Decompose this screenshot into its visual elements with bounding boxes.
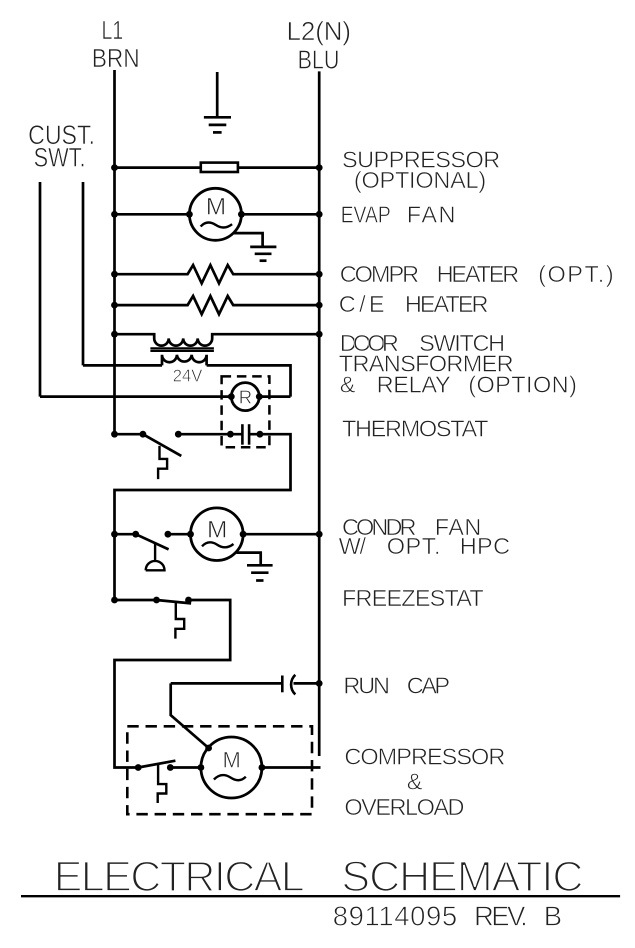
svg-text:B: B xyxy=(544,900,562,931)
svg-text:&: & xyxy=(340,372,356,398)
svg-text:W/: W/ xyxy=(339,533,367,559)
switch condr fan HPC blade xyxy=(136,534,169,549)
ground (condr fan) xyxy=(236,553,272,581)
relay coil R xyxy=(231,383,259,411)
motor CONDR FAN xyxy=(191,508,244,561)
svg-text:24V: 24V xyxy=(173,366,203,386)
wire run cap to L2 xyxy=(294,682,320,685)
node evap motor left xyxy=(186,211,193,218)
node L2/evap xyxy=(316,211,323,218)
thermostat sensing element xyxy=(158,446,167,479)
svg-text:HEATER: HEATER xyxy=(437,261,520,287)
wire thermostat rung left xyxy=(115,433,143,436)
transformer T1 core xyxy=(150,348,214,351)
switch overload blade xyxy=(138,761,175,768)
node freezestat switch right xyxy=(185,597,192,604)
wire condr fan rung left xyxy=(115,533,136,536)
svg-text:M: M xyxy=(207,517,227,544)
svg-text:L2(N): L2(N) xyxy=(287,16,352,46)
svg-text:OPT.: OPT. xyxy=(387,533,441,559)
compressor wave xyxy=(214,775,246,780)
node condr switch left xyxy=(132,531,139,538)
node L2/transformer xyxy=(316,331,323,338)
node compressor motor right xyxy=(259,764,266,771)
wire cust-swt left lead xyxy=(39,182,42,397)
wire start winding lead xyxy=(171,683,209,748)
svg-text:REV.: REV. xyxy=(474,900,528,931)
node L1/transformer xyxy=(111,331,118,338)
svg-text:(OPTIONAL): (OPTIONAL) xyxy=(354,167,486,193)
ground (top earth symbol) xyxy=(204,72,231,132)
node relay left xyxy=(228,393,235,400)
node relay right xyxy=(256,393,263,400)
svg-text:COMPRESSOR: COMPRESSOR xyxy=(344,744,505,770)
overload thermal element xyxy=(158,764,167,803)
node L1/thermostat xyxy=(111,431,118,438)
node start winding xyxy=(205,745,212,752)
node contact left xyxy=(227,431,234,438)
svg-text:HEATER: HEATER xyxy=(405,291,489,317)
svg-text:RELAY: RELAY xyxy=(377,372,451,398)
compressor + overload dashed enclosure xyxy=(127,726,312,814)
node thermostat switch right xyxy=(175,431,182,438)
freezestat sensing element xyxy=(175,602,184,638)
node L1/compr-heater xyxy=(111,271,118,278)
wire thermostat rung middle xyxy=(178,433,242,436)
node rail/freezestat xyxy=(111,597,118,604)
wire secondary left lead xyxy=(83,364,162,367)
svg-text:89114095: 89114095 xyxy=(333,900,458,931)
wire relay to right riser xyxy=(259,395,290,398)
node evap motor right xyxy=(238,211,245,218)
node condr switch right xyxy=(165,531,172,538)
node thermostat switch left xyxy=(140,431,147,438)
wire run cap rung xyxy=(171,682,283,685)
svg-text:M: M xyxy=(206,193,226,220)
rail L1 (BRN) xyxy=(113,70,116,434)
switch freezestat blade xyxy=(157,600,192,603)
node contact right xyxy=(257,431,264,438)
svg-text:RUN: RUN xyxy=(343,672,390,698)
wire suppressor rung xyxy=(115,166,320,169)
wire overload to motor xyxy=(170,766,201,769)
node L1/ce-heater xyxy=(111,302,118,309)
ground (evap fan) xyxy=(234,233,277,261)
suppressor (optional) component body xyxy=(201,163,238,172)
svg-text:EVAP: EVAP xyxy=(341,202,391,228)
svg-text:FAN: FAN xyxy=(407,202,456,228)
node rail/condr xyxy=(111,531,118,538)
svg-text:ELECTRICAL: ELECTRICAL xyxy=(54,853,305,901)
node L2/run-cap xyxy=(316,680,323,687)
node overload right xyxy=(167,764,174,771)
evap fan wave xyxy=(201,223,233,228)
wire relay rung xyxy=(40,395,231,398)
switch thermostat blade xyxy=(143,434,181,456)
node L1/suppressor xyxy=(111,164,118,171)
svg-text:&: & xyxy=(407,768,423,794)
svg-text:COMPR: COMPR xyxy=(340,261,419,287)
svg-text:SWT.: SWT. xyxy=(34,143,86,173)
wire condr fan rung right xyxy=(243,533,319,536)
capacitor RUN CAP xyxy=(282,675,295,695)
motor EVAP FAN xyxy=(189,188,241,240)
node L2/suppressor xyxy=(316,164,323,171)
svg-text:CAP: CAP xyxy=(407,672,450,698)
motor waves xyxy=(201,223,246,781)
transformer T1 primary + rung xyxy=(115,334,320,345)
title ELECTRICAL SCHEMATIC xyxy=(21,853,620,901)
svg-text:(OPTION): (OPTION) xyxy=(468,372,577,398)
wire thermostat loop to lower rail xyxy=(115,434,291,600)
relay + thermostat-contact dashed enclosure xyxy=(222,376,270,447)
svg-text:FREEZESTAT: FREEZESTAT xyxy=(342,585,484,611)
node compressor motor left xyxy=(198,764,205,771)
node L2/condr xyxy=(316,531,323,538)
wire secondary right lead to relay xyxy=(207,365,291,396)
node L1/evap xyxy=(111,211,118,218)
wire condr fan rung middle xyxy=(168,533,191,536)
transformer T1 secondary 24V xyxy=(162,355,207,366)
node freezestat switch left xyxy=(153,597,160,604)
svg-text:THERMOSTAT: THERMOSTAT xyxy=(342,415,489,441)
node condr motor right xyxy=(240,531,247,538)
wire compressor rung right xyxy=(262,766,321,769)
svg-text:M: M xyxy=(223,748,241,773)
svg-text:R: R xyxy=(239,387,252,408)
svg-text:BLU: BLU xyxy=(298,44,340,74)
svg-text:C/E: C/E xyxy=(339,291,385,317)
motor COMPRESSOR xyxy=(201,737,262,798)
resistor C/E HEATER rung xyxy=(115,296,320,314)
resistor COMPR HEATER rung xyxy=(115,265,320,283)
svg-text:L1: L1 xyxy=(102,15,124,45)
pressure sensor dome (HPC) xyxy=(146,544,165,571)
label 89114095 REV. B xyxy=(333,900,562,931)
wire freezestat rung left xyxy=(115,599,157,602)
node condr motor left xyxy=(187,531,194,538)
junction dots xyxy=(111,164,323,771)
svg-text:OVERLOAD: OVERLOAD xyxy=(344,794,464,820)
svg-text:SCHEMATIC: SCHEMATIC xyxy=(341,853,583,901)
wire cust-swt right lead xyxy=(82,182,85,365)
svg-text:HPC: HPC xyxy=(460,533,510,559)
svg-text:BRN: BRN xyxy=(92,43,140,73)
node overload left xyxy=(135,764,142,771)
rail L2 (BLU) xyxy=(318,71,321,756)
node L2/ce-heater xyxy=(316,302,323,309)
wire evap fan rung xyxy=(115,213,320,216)
wire freezestat loop to compressor xyxy=(115,600,231,768)
node L2/compr-heater xyxy=(316,271,323,278)
condr fan wave xyxy=(202,542,234,547)
svg-text:(OPT.): (OPT.) xyxy=(538,261,614,287)
relay contact bars xyxy=(242,424,249,445)
